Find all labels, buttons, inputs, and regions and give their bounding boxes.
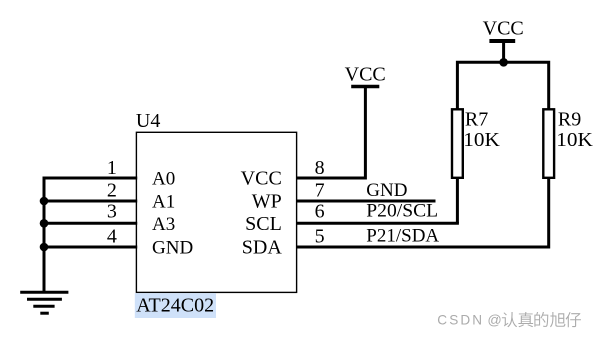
svg-text:@: @	[487, 313, 501, 329]
wire pin3 A3	[44, 222, 137, 225]
svg-text:P21/SDA: P21/SDA	[366, 226, 439, 247]
svg-text:10K: 10K	[463, 129, 500, 151]
svg-text:SCL: SCL	[245, 213, 282, 235]
svg-text:P20/SCL: P20/SCL	[366, 200, 438, 221]
wire pin8 VCC up to power symbol	[296, 87, 365, 179]
wire pin2 A1	[44, 200, 137, 203]
svg-text:2: 2	[107, 179, 117, 201]
wire pin4 GND	[44, 246, 137, 249]
svg-text:10K: 10K	[556, 129, 593, 151]
svg-text:7: 7	[315, 179, 325, 201]
watermark 认真的旭仔 emboss	[503, 313, 582, 328]
node junction VCC rail	[499, 58, 508, 67]
wire pin5 SDA net + R9 lead up	[296, 178, 549, 248]
ground symbol	[20, 292, 68, 313]
node junction pin4/bus	[40, 243, 49, 252]
wire pin1 A0 + left bus + ground stem	[44, 178, 137, 292]
svg-text:8: 8	[315, 157, 325, 179]
svg-text:VCC: VCC	[345, 64, 386, 86]
IC U4 body	[136, 132, 296, 292]
svg-text:4: 4	[107, 225, 117, 247]
svg-text:A3: A3	[152, 214, 175, 235]
svg-text:R7: R7	[465, 108, 488, 130]
svg-text:GND: GND	[152, 238, 193, 259]
svg-text:5: 5	[315, 225, 325, 247]
svg-text:VCC: VCC	[483, 17, 524, 39]
svg-text:SDA: SDA	[242, 237, 283, 259]
svg-text:A1: A1	[152, 191, 175, 212]
resistor R7	[452, 109, 463, 178]
node junction pin3/bus	[40, 219, 49, 228]
svg-text:WP: WP	[252, 190, 282, 212]
svg-text:A0: A0	[152, 169, 175, 190]
wire R7 bottom lead to SCL	[456, 178, 459, 224]
node junction pin2/bus	[40, 197, 49, 206]
wire pin7 GND net	[296, 200, 436, 203]
svg-text:R9: R9	[558, 108, 581, 130]
svg-text:U4: U4	[136, 110, 160, 132]
power VCC (middle) bar	[351, 85, 379, 89]
wire pin6 SCL net	[296, 222, 459, 225]
svg-text:VCC: VCC	[241, 168, 282, 190]
watermark 认真的旭仔	[502, 312, 581, 327]
svg-text:GND: GND	[366, 180, 407, 201]
power VCC (right) stem	[502, 41, 505, 62]
svg-text:6: 6	[315, 201, 325, 223]
svg-text:1: 1	[107, 157, 117, 179]
svg-text:3: 3	[107, 201, 117, 223]
wire VCC top rail	[457, 62, 548, 109]
svg-text:AT24C02: AT24C02	[136, 295, 214, 317]
resistor R9	[543, 109, 554, 178]
svg-text:CSDN: CSDN	[437, 313, 484, 328]
AT24C02 value highlight	[135, 293, 216, 318]
power VCC (right) bar	[489, 39, 515, 43]
